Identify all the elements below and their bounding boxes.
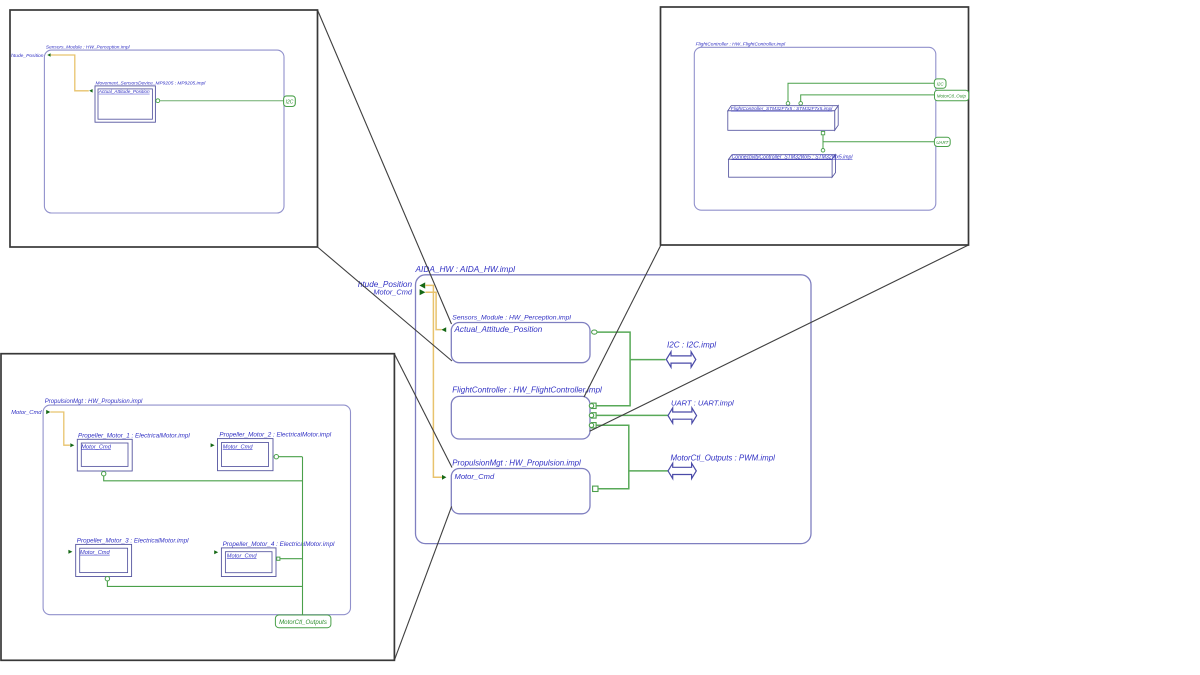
svg-text:FlightController : HW_FlightCo: FlightController : HW_FlightController.i… [696,42,787,48]
port circle 2 on processor top [799,102,803,106]
port square motor4 right [277,557,280,560]
wire callout TR inset right to FlightController bottom-right [590,245,969,431]
port device right circle [156,99,160,103]
node MotorCtl_Outputs label (inset) [275,615,331,628]
wire callout TL inset top to Sensors top-left [318,10,452,324]
wire green FlightController to UART bus [596,414,668,416]
wire green trunk to MotorCtl_Outputs [302,457,304,615]
port triangle at motor4 [214,550,218,554]
wire green to I2C (inset) [160,100,284,102]
wire callout TR inset left to FlightController top-right [584,245,661,397]
wire callout BL inset top to PropulsionMgt top-left [394,354,452,468]
svg-text:Motor_Cmd: Motor_Cmd [227,553,258,559]
port triangle at motor2 [211,443,215,447]
svg-text:FlightController_STM32F7x5 : S: FlightController_STM32F7x5 : STM32F7x5.i… [731,106,834,112]
svg-text:Motor_Cmd: Motor_Cmd [455,472,495,481]
port circle 1 on processor top [786,102,790,106]
port triangle (inset left) [47,53,50,57]
port circle motor1 bottom [102,472,106,476]
svg-text:Motor_Cmd: Motor_Cmd [11,410,42,416]
port PropulsionMgt right oval [593,486,598,491]
node MotorCtl_Outputs label (TR inset, clipped) [935,90,969,101]
svg-text:Motor_Cmd: Motor_Cmd [81,444,112,450]
wire callout TL inset bottom to Sensors bottom-left [318,247,453,361]
port square on processor bottom [821,131,824,134]
port triangle (inset left) [46,410,50,414]
wire green motor3 to trunk [107,581,302,587]
svg-text:MotorCtl_Outp: MotorCtl_Outp [937,94,967,99]
svg-text:UART : UART.impl: UART : UART.impl [671,398,734,407]
wire orange Motor_Cmd to PropulsionMgt [425,292,441,329]
node I2C label (inset) [284,96,296,107]
svg-text:Motor_Cmd: Motor_Cmd [80,550,111,556]
port triangle at motor1 [70,443,74,447]
wire green motor2 to trunk [279,456,303,458]
system Sensors_Module (inset) [44,50,284,213]
port out Attitude_Position (left edge) [419,282,425,288]
device Propeller_Motor_2 [218,432,332,471]
wire green to MotorCtl (inset) [801,95,936,102]
svg-text:UART: UART [936,140,949,145]
bus MotorCtl_Outputs symbol [668,453,775,478]
inset Sensors_Module detail frame [10,10,318,247]
node UART label (TR inset) [934,137,950,146]
svg-text:Propeller_Motor_3 : Electrical: Propeller_Motor_3 : ElectricalMotor.impl [77,538,189,545]
wire green to I2C (inset) [788,83,935,101]
svg-text:ConnectivityController_STM32Wx: ConnectivityController_STM32Wx5 : STM32W… [732,154,854,160]
wire green FlightController to PropulsionMgt [596,425,629,489]
svg-text:Propeller_Motor_4 : Electrical: Propeller_Motor_4 : ElectricalMotor.impl [223,541,335,548]
port triangle at motor3 [68,550,72,554]
port Sensors_Module right oval [592,330,597,334]
wire orange Attitude_Position to Sensors_Module [425,285,442,477]
svg-text:I2C: I2C [286,99,294,105]
svg-text:Actual_Attitude_Position: Actual_Attitude_Position [98,89,150,94]
svg-text:PropulsionMgt : HW_Propulsion.: PropulsionMgt : HW_Propulsion.impl [452,458,581,467]
system PropulsionMgt (inset) [43,405,350,615]
wire green processor to connectivity and UART [822,135,824,149]
device Propeller_Motor_1 [77,432,190,471]
wire green motor4 to trunk [280,558,302,560]
port PropulsionMgt left triangle [442,475,446,480]
svg-text:I2C: I2C [937,82,945,87]
svg-text:Sensors_Module : HW_Perception: Sensors_Module : HW_Perception.impl [452,315,571,322]
port in Motor_Cmd (left edge) [420,289,426,295]
svg-text:MotorCtl_Outputs : PWM.impl: MotorCtl_Outputs : PWM.impl [671,453,776,462]
port circle motor3 bottom [105,577,109,581]
system PropulsionMgt box [451,458,590,514]
svg-text:PropulsionMgt : HW_Propulsion.: PropulsionMgt : HW_Propulsion.impl [45,399,143,405]
inset PropulsionMgt detail frame [1,354,394,661]
port FlightController right oval 1 [592,403,597,408]
port FlightController right oval 2 [592,413,597,418]
system FlightController (inset) [694,47,936,210]
port Sensors_Module left triangle [441,327,446,332]
wire green Sensors to FlightController and I2C [596,332,630,406]
system Sensors_Module box [451,315,590,363]
processor FlightController_STM32F7x5 [728,106,838,131]
device Propeller_Motor_3 [76,538,189,577]
svg-text:I2C : I2C.impl: I2C : I2C.impl [667,341,716,350]
wire callout BL inset bottom to PropulsionMgt bottom-left [394,507,451,661]
svg-text:Propeller_Motor_2 : Electrical: Propeller_Motor_2 : ElectricalMotor.impl [219,432,331,439]
svg-text:MotorCtl_Outputs: MotorCtl_Outputs [279,619,327,626]
bus I2C symbol [666,341,716,368]
device Propeller_Motor_4 [221,541,335,577]
node I2C label (TR inset) [934,79,946,88]
system FlightController box [451,386,602,440]
svg-text:Movement_SensorsDevice_MP9205: Movement_SensorsDevice_MP9205 : MP9205.i… [96,80,207,86]
wire green motor1 to trunk [104,476,303,481]
wire orange (inset) [51,55,89,91]
svg-text:Motor_Cmd: Motor_Cmd [223,444,254,450]
wire orange (inset) [50,412,70,445]
system AIDA_HW box [415,264,812,544]
port circle motor2 right [274,455,278,459]
inset FlightController detail frame [661,7,969,245]
wire green branch to I2C bus [630,359,665,361]
bus UART symbol [668,398,734,423]
svg-text:Propeller_Motor_1 : Electrical: Propeller_Motor_1 : ElectricalMotor.impl [78,432,190,439]
svg-text:Sensors_Module : HW_Perception: Sensors_Module : HW_Perception.impl [46,44,131,50]
port FlightController right oval 3 [592,423,597,428]
svg-text:Actual_Attitude_Position: Actual_Attitude_Position [454,325,543,334]
processor ConnectivityController_STM32Wx5 [729,154,854,177]
port triangle at device (inset) [89,89,92,93]
device Movement_SensorsDevice_MP9205 [95,86,155,122]
svg-text:htude_Position: htude_Position [11,53,44,59]
port circle on connectivity top [821,149,825,153]
wire green branch to MotorCtl bus [629,470,668,472]
svg-text:FlightController : HW_FlightCo: FlightController : HW_FlightController.i… [452,386,602,395]
svg-text:Motor_Cmd: Motor_Cmd [373,288,412,297]
